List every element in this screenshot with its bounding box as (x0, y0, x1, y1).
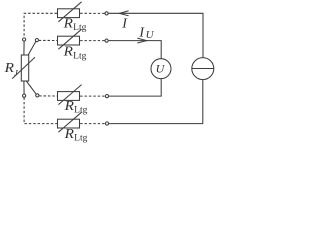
resistor R_Ltg 2 (row2 box) (58, 36, 80, 45)
svg-text:R: R (62, 15, 72, 30)
label R_Ltg 2 (62, 44, 86, 61)
svg-text:Ltg: Ltg (74, 133, 88, 143)
current source (circle with horizontal bar) (192, 58, 214, 80)
wire from current source bottom to row4 (109, 80, 203, 124)
node B1 (sensor bottom terminal, left) (23, 94, 26, 97)
current arrow I (pointing left on row1 wire) (119, 11, 128, 16)
label R_Ltg 4 (63, 126, 87, 143)
diagonal stroke through R_Ltg 2 (58, 29, 81, 49)
label R_Ltg 1 (62, 15, 86, 32)
wire slanted from sensor box bottom to B2 (26, 81, 36, 94)
resistor R_Ltg 1 (row1 box) (58, 9, 80, 18)
svg-text:I: I (138, 25, 145, 40)
node T1 (sensor top terminal, left) (23, 38, 26, 41)
node T2 (sensor top terminal, right) (35, 39, 38, 42)
wire from T1 down to sensor box (23, 41, 25, 55)
label I_U (138, 25, 154, 41)
diagonal stroke through R_Ltg 4 (58, 112, 81, 132)
diagonal stroke through R_J (12, 57, 35, 78)
svg-text:U: U (156, 62, 166, 76)
current arrow I_U (pointing right on row2 wire) (137, 38, 146, 43)
node terminal row1 right (105, 12, 108, 15)
resistor R_Ltg 3 (row3 box) (58, 92, 80, 101)
diagonal stroke through R_Ltg 3 (58, 85, 81, 105)
svg-text:R: R (63, 126, 73, 141)
label R_J (3, 60, 19, 78)
svg-text:U: U (146, 29, 155, 41)
node B2 (sensor bottom terminal, right) (36, 94, 39, 97)
wire dashed row1 right of R_Ltg1 (80, 12, 105, 14)
wire dashed row4 right of R_Ltg4 (80, 123, 105, 125)
wire dashed row2 from T2 to R_Ltg2 (39, 39, 57, 41)
svg-text:Ltg: Ltg (73, 51, 87, 61)
wire row2 right solid to voltmeter top (108, 41, 161, 59)
label U inside voltmeter (156, 62, 166, 76)
wire dashed left rail bottom: B1 down then right to R_Ltg4 (24, 98, 57, 124)
wire slanted from T2 to sensor box top (28, 41, 36, 55)
voltmeter U (circle) (151, 59, 171, 79)
node terminal row2 right (105, 39, 108, 42)
svg-text:R: R (3, 60, 13, 75)
wire from voltmeter bottom to row3 (109, 79, 161, 96)
label R_Ltg 3 (63, 98, 87, 115)
svg-text:I: I (121, 16, 128, 31)
resistor R_J sensor (vertical box) (21, 55, 28, 81)
resistor R_Ltg 4 (row4 box) (58, 119, 80, 128)
wire dashed row3 right of R_Ltg3 (80, 95, 105, 97)
diagonal stroke through R_Ltg 1 (58, 2, 81, 22)
wire row1 right solid to current source top (108, 13, 203, 57)
wire dashed left rail top: row1 corner down to sensor top terminal T1 (24, 13, 57, 38)
node terminal row4 right (105, 122, 108, 125)
svg-text:R: R (63, 98, 73, 113)
wire dashed row2 right of R_Ltg2 (80, 40, 105, 42)
wire from sensor box bottom to B1 (23, 81, 25, 94)
svg-text:R: R (62, 44, 72, 59)
label I (121, 16, 128, 31)
wire dashed row3 from B2 to R_Ltg3 (39, 95, 57, 97)
node terminal row3 right (105, 95, 108, 98)
